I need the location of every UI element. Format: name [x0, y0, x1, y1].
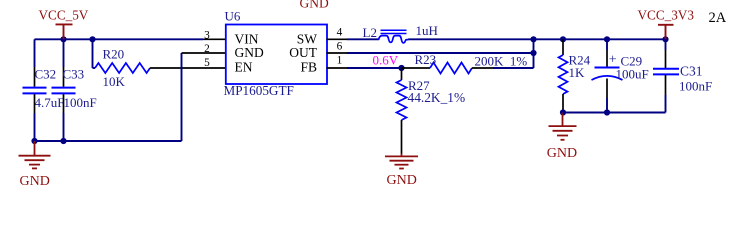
wire: C33 bottom lead [63, 94, 65, 141]
svg-text:U6: U6 [225, 9, 241, 24]
label C32 [35, 67, 57, 82]
wire/pin 5 stub (EN) [150, 67, 226, 69]
node VCC_5V junction at R20 branch [89, 36, 95, 42]
label C33 [63, 67, 85, 82]
svg-text:3: 3 [204, 29, 210, 41]
svg-text:L2: L2 [363, 25, 377, 40]
svg-text:GND: GND [547, 146, 577, 161]
label C31 [680, 64, 703, 79]
svg-text:2A: 2A [709, 10, 727, 26]
svg-text:C33: C33 [63, 67, 85, 82]
wire: U6 GND pin 2 to ground rail [181, 53, 183, 141]
pin name FB [300, 60, 317, 75]
wire: C32 bottom lead [34, 94, 36, 141]
svg-text:GND: GND [20, 174, 50, 189]
svg-text:100uF: 100uF [616, 67, 649, 82]
label U6 [225, 9, 241, 24]
value 100nF (C31) [679, 78, 712, 93]
svg-text:200K 1%: 200K 1% [475, 54, 528, 69]
svg-text:C31: C31 [680, 64, 703, 79]
node rail junction at R24 [560, 36, 566, 42]
polarity + of C29 [609, 52, 617, 67]
value 44.2K_1% [408, 90, 466, 105]
power port VCC_5V [39, 7, 89, 39]
power port VCC_3V3 [638, 7, 695, 39]
svg-text:0.6V: 0.6V [373, 53, 399, 68]
label R23 [415, 52, 437, 67]
svg-text:4.7uF: 4.7uF [35, 95, 65, 110]
svg-text:+: + [609, 52, 617, 67]
pin name SW [297, 32, 318, 47]
pin 1 stub (FB) [327, 67, 348, 69]
svg-text:6: 6 [337, 41, 343, 53]
value 1uH [416, 23, 438, 38]
ground symbol right [547, 113, 577, 162]
pin name VIN [235, 32, 259, 47]
value 100uF [616, 67, 649, 82]
svg-text:100nF: 100nF [64, 95, 97, 110]
svg-text:FB: FB [300, 60, 317, 75]
label C29 [621, 54, 643, 69]
value 100nF (C33) [64, 95, 97, 110]
resistor R24 [559, 39, 568, 112]
op-amp U6 body (MP1605GTF regulator) [226, 25, 327, 85]
pin number 1 [337, 54, 343, 66]
svg-text:100nF: 100nF [679, 78, 712, 93]
svg-text:C32: C32 [35, 67, 57, 82]
node rail junction at C29 [604, 36, 610, 42]
svg-text:VCC_5V: VCC_5V [39, 7, 89, 22]
wire: left ground rail [35, 140, 182, 142]
pin number 6 [337, 41, 343, 53]
pin 4 stub (SW) [327, 38, 348, 40]
label 2A [709, 10, 727, 26]
pin number 4 [337, 27, 343, 39]
label R20 [103, 47, 125, 62]
wire: SW to L2 [347, 38, 379, 40]
svg-text:4: 4 [337, 27, 343, 39]
pin number 3 [204, 29, 210, 41]
value 4.7uF [35, 95, 65, 110]
wire: R23 to riser [493, 67, 534, 69]
node right-ground junction R24 [560, 109, 566, 115]
svg-text:GND: GND [235, 45, 264, 60]
node ground junction C33 [60, 138, 66, 144]
svg-text:OUT: OUT [289, 45, 317, 60]
ground symbol under R27 [385, 154, 418, 189]
svg-text:VCC_3V3: VCC_3V3 [638, 7, 695, 22]
svg-text:1: 1 [337, 54, 343, 66]
wire: right ground rail [563, 112, 666, 114]
pin 3 stub (VIN) [203, 38, 226, 40]
label L2 [363, 25, 377, 40]
pin number 5 [204, 57, 210, 69]
svg-text:2: 2 [204, 43, 210, 55]
svg-text:5: 5 [204, 57, 210, 69]
capacitor C32 [23, 88, 47, 94]
svg-text:R20: R20 [103, 47, 125, 62]
pin number 2 [204, 43, 210, 55]
capacitor C29 (polarized) [592, 39, 623, 112]
svg-text:R23: R23 [415, 52, 437, 67]
label R27 [408, 78, 430, 93]
capacitor C33 [52, 88, 76, 94]
wire: C32 top lead [34, 39, 36, 86]
label R24 [569, 53, 591, 68]
inductor L2 [379, 30, 409, 43]
svg-text:MP1605GTF: MP1605GTF [224, 83, 294, 98]
value 10K [103, 74, 126, 89]
value 1K [569, 65, 586, 80]
wire: riser OUT/FB to rail [533, 39, 535, 68]
svg-text:GND: GND [387, 173, 417, 188]
svg-text:GND: GND [300, 0, 329, 11]
node rail junction at C31/VCC_3V3 [662, 36, 668, 42]
node ground junction C32 [31, 138, 37, 144]
label MP1605GTF [224, 83, 294, 98]
wire: VCC_5V top rail to U6 VIN [35, 38, 204, 40]
svg-text:44.2K_1%: 44.2K_1% [408, 90, 466, 105]
wire: R20 branch drop from VCC rail [92, 39, 94, 68]
pin name EN [235, 60, 253, 75]
node OUT junction [530, 50, 536, 56]
capacitor C31 [653, 39, 679, 112]
ground symbol left [19, 141, 51, 189]
resistor R20 [93, 63, 151, 73]
label 0.6V [373, 53, 399, 68]
node rail junction at OUT riser [530, 36, 536, 42]
svg-text:10K: 10K [103, 74, 126, 89]
node FB divider junction [398, 65, 404, 71]
svg-text:EN: EN [235, 60, 253, 75]
node right-ground junction C29 [604, 109, 610, 115]
pin name OUT [289, 45, 317, 60]
wire: C33 top lead [63, 39, 65, 86]
resistor R23 [402, 63, 493, 74]
pin 2 stub (GND) [182, 52, 226, 54]
resistor R27 [397, 68, 407, 154]
wire: output rail L2 to VCC_3V3 [408, 38, 665, 40]
svg-text:1uH: 1uH [416, 23, 438, 38]
wire: FB to divider [347, 67, 402, 69]
node VCC_5V junction at C33 [60, 36, 66, 42]
wire: OUT to output rail [347, 52, 534, 54]
svg-text:1K: 1K [569, 65, 586, 80]
pin 6 stub (OUT) [327, 52, 348, 54]
power label GND above U6 [300, 0, 329, 11]
value 200K 1% [475, 54, 528, 69]
pin name GND [235, 45, 264, 60]
